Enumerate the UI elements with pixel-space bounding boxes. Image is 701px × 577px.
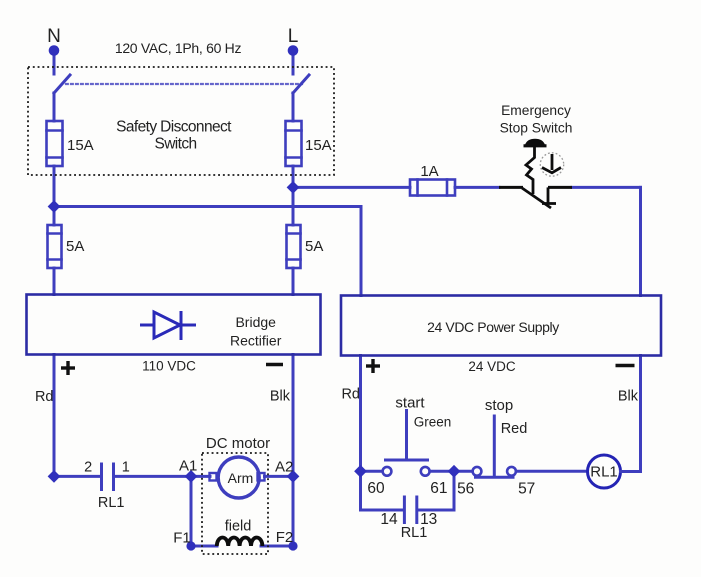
svg-text:24 VDC: 24 VDC — [468, 359, 516, 374]
svg-text:Safety Disconnect: Safety Disconnect — [116, 118, 232, 135]
svg-text:Bridge: Bridge — [235, 314, 276, 330]
svg-text:Blk: Blk — [270, 389, 291, 405]
svg-text:1: 1 — [122, 459, 130, 475]
svg-text:120 VAC, 1Ph, 60 Hz: 120 VAC, 1Ph, 60 Hz — [115, 40, 242, 56]
svg-text:F1: F1 — [173, 530, 191, 547]
svg-text:L: L — [288, 26, 299, 47]
svg-text:57: 57 — [518, 480, 535, 497]
svg-text:15A: 15A — [305, 137, 332, 154]
svg-text:field: field — [225, 519, 252, 535]
svg-text:Red: Red — [501, 421, 528, 437]
svg-text:5A: 5A — [305, 238, 323, 255]
svg-text:RL1: RL1 — [590, 463, 618, 480]
svg-text:F2: F2 — [276, 529, 294, 546]
svg-text:1A: 1A — [420, 163, 438, 180]
svg-text:A1: A1 — [179, 457, 197, 474]
svg-text:Stop Switch: Stop Switch — [500, 120, 573, 135]
svg-text:110 VDC: 110 VDC — [142, 359, 196, 374]
svg-text:N: N — [47, 26, 61, 47]
svg-text:RL1: RL1 — [98, 495, 125, 511]
svg-text:Arm: Arm — [228, 470, 254, 486]
svg-text:14: 14 — [380, 511, 398, 528]
svg-text:56: 56 — [457, 480, 474, 497]
svg-text:Emergency: Emergency — [501, 103, 571, 118]
svg-text:Blk: Blk — [618, 388, 639, 404]
svg-text:2: 2 — [84, 459, 92, 475]
svg-text:Rectifier: Rectifier — [230, 333, 282, 349]
svg-text:61: 61 — [430, 480, 447, 497]
svg-text:start: start — [395, 395, 425, 412]
svg-text:stop: stop — [485, 397, 513, 414]
svg-text:Rd: Rd — [35, 389, 54, 405]
svg-text:5A: 5A — [66, 238, 84, 255]
svg-text:15A: 15A — [67, 137, 94, 154]
svg-text:Green: Green — [414, 415, 452, 430]
svg-text:A2: A2 — [275, 459, 293, 476]
svg-text:DC motor: DC motor — [206, 435, 270, 452]
svg-text:RL1: RL1 — [401, 525, 428, 541]
svg-text:60: 60 — [367, 480, 385, 497]
svg-text:24 VDC Power Supply: 24 VDC Power Supply — [427, 319, 559, 335]
svg-text:Rd: Rd — [341, 387, 360, 403]
svg-text:Switch: Switch — [154, 136, 196, 153]
